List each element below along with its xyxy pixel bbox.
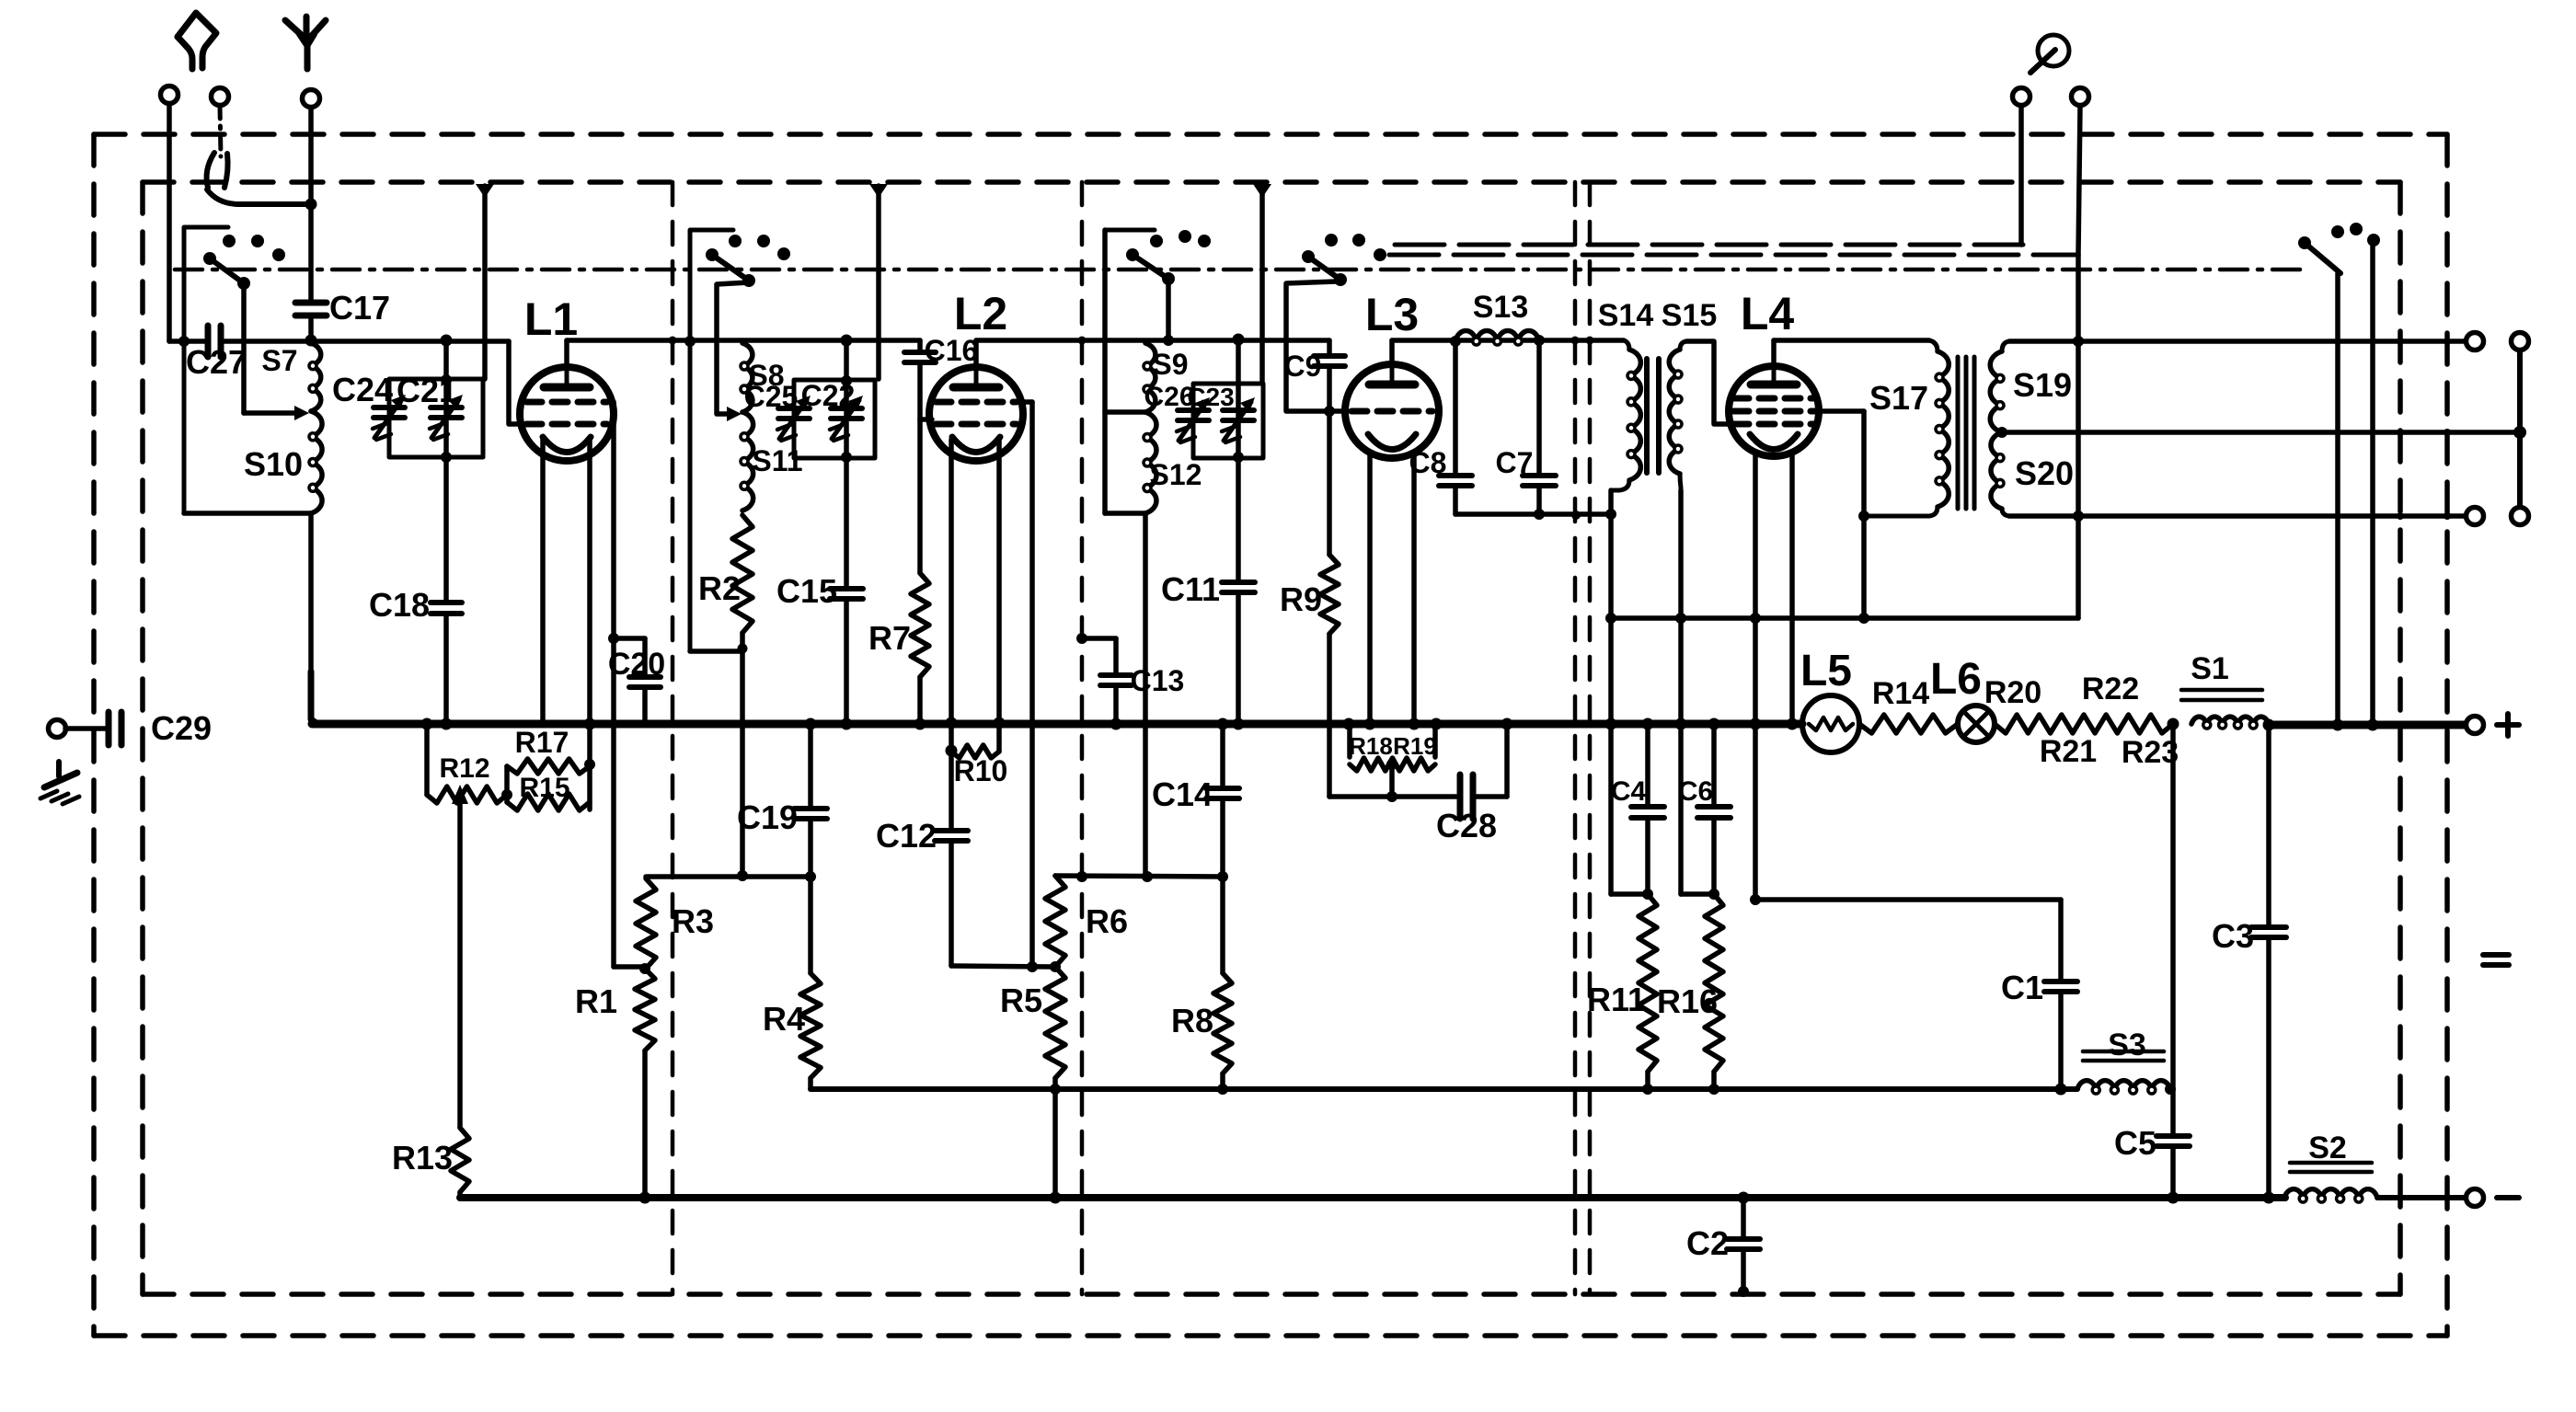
coil S19 (secondary upper) — [1990, 341, 2009, 432]
label R16 — [1657, 982, 1718, 1020]
svg-text:C3: C3 — [2212, 917, 2254, 955]
node S13 right — [1534, 335, 1545, 346]
node R10 left — [946, 745, 958, 757]
band switch stage1 wiper arm — [210, 258, 250, 290]
terminal frame-aerial B — [212, 88, 229, 106]
linkage bus upper line (long dashes) — [1395, 243, 2023, 247]
band switch stage1 wiper lead — [241, 283, 247, 413]
lamp L6 — [1958, 706, 1995, 742]
label L4 — [1741, 288, 1795, 339]
wire C4 to R11 — [1645, 818, 1650, 894]
coil S15 (secondary) — [1669, 341, 1686, 490]
label C23 — [1187, 383, 1234, 411]
resistor R15 — [507, 794, 590, 810]
wire L3 grid entry — [1329, 408, 1345, 414]
svg-text:R23: R23 — [2122, 735, 2179, 770]
label C26 — [1144, 382, 1194, 412]
band switch stage1 bracket — [184, 227, 228, 513]
label C11 — [1161, 570, 1220, 608]
svg-text:C13: C13 — [1131, 664, 1185, 697]
node R11 bias rail — [1642, 1084, 1653, 1095]
wire S14 bottom lead — [1608, 490, 1614, 894]
resistor R16 — [1705, 894, 1723, 1072]
node grid rail / divider — [1076, 871, 1087, 882]
stage shield divider (double dashed, stage 3/4) right line — [1588, 182, 1593, 1294]
svg-text:R20: R20 — [1984, 675, 2041, 710]
wire output row centre — [2002, 430, 2516, 435]
svg-text:S14: S14 — [1598, 298, 1654, 333]
label C19 — [737, 798, 798, 836]
label C8 — [1409, 446, 1447, 479]
svg-text:L5: L5 — [1800, 647, 1852, 695]
node S17 return row672 — [1858, 613, 1869, 624]
switch antenna-select blade b — [224, 154, 228, 188]
wire trimmer2 to C15 — [844, 458, 849, 589]
coil S13 — [1455, 330, 1539, 345]
capacitor C5 — [2156, 1089, 2190, 1198]
capacitor C1 — [2044, 982, 2077, 992]
label R3 — [672, 902, 714, 940]
band switch stage1 contact 1 — [223, 235, 236, 247]
wire + bus (main) — [312, 720, 1802, 729]
node trimmer box top — [441, 374, 452, 385]
headphone jack icon — [2030, 35, 2069, 73]
band switch stage2 contact 2 — [757, 235, 770, 247]
label C4 — [1611, 776, 1647, 807]
node detector row / S14 drop — [1605, 509, 1616, 520]
wire L2 cathode lead — [949, 440, 954, 831]
node C28 bus — [1501, 718, 1513, 730]
tube L4 — [1729, 366, 1819, 456]
node L2 filament bus — [994, 717, 1006, 729]
label R11 — [1587, 981, 1646, 1018]
coil S12 (lower section) — [1144, 412, 1156, 513]
label C18 — [369, 586, 430, 624]
node R5 minus rail — [1050, 1192, 1062, 1204]
wire minus out — [2377, 1195, 2466, 1200]
power switch lead a — [2335, 273, 2340, 725]
capacitor C29 input terminal — [49, 720, 109, 738]
capacitor C2 — [1727, 1198, 1760, 1291]
wire R16 bottom — [1711, 1072, 1717, 1089]
node stage3 wiper / plate row — [1163, 335, 1174, 346]
svg-text:R4: R4 — [763, 1000, 805, 1038]
grid switch L3 contact 2 — [1352, 234, 1365, 247]
node S17 bottom junction — [1858, 511, 1869, 522]
svg-text:C24: C24 — [332, 371, 393, 408]
wire R13 to - rail — [457, 1192, 463, 1198]
wire L1 grid-1 exit — [604, 402, 614, 967]
svg-text:C15: C15 — [776, 572, 837, 610]
wire L4 plate top lead — [1771, 340, 1777, 366]
svg-text:S19: S19 — [2013, 366, 2072, 404]
svg-text:C6: C6 — [1678, 776, 1713, 807]
trimmer box stage2 — [794, 380, 875, 458]
coil S7/S10 tap wire — [244, 406, 309, 420]
label R5 — [1000, 982, 1042, 1019]
node stage2 bracket / plate row — [684, 336, 696, 347]
label S9 — [1152, 348, 1188, 381]
svg-text:C14: C14 — [1152, 775, 1213, 813]
wire R12 drop — [424, 724, 430, 795]
svg-text:R1: R1 — [575, 982, 617, 1020]
barretter L5 — [1802, 695, 1859, 752]
band switch stage2 wiper pivot — [706, 248, 719, 261]
capacitor C19 — [794, 809, 827, 819]
label C14 — [1152, 775, 1213, 813]
band switch stage2 wiper lead to coil tap — [717, 282, 749, 421]
wire C19 to R4 — [808, 819, 813, 973]
svg-text:R11: R11 — [1587, 981, 1646, 1018]
wire bias rail — [811, 1086, 2077, 1092]
linkage bus lower line (long dashes) — [1389, 253, 2078, 258]
capacitor C9 (coupling) — [1314, 340, 1345, 411]
capacitor C27 (series) — [208, 326, 221, 357]
choke S2 — [2284, 1189, 2377, 1202]
node L2 cathode bus — [946, 717, 958, 729]
node C13 bus — [1110, 718, 1122, 730]
shield tap triangle stage1 — [476, 184, 494, 198]
shield tap wire stage2 — [876, 186, 881, 379]
label R2 — [698, 569, 741, 607]
wire C1 feed row — [1755, 900, 2061, 982]
node S15 bus — [1675, 718, 1687, 730]
band switch stage3 tap vertical — [1105, 230, 1145, 513]
tube L2 — [929, 367, 1023, 461]
wire L2 grid-1 exit — [1013, 402, 1032, 967]
label L1 — [524, 293, 578, 345]
wire R2 to grid rail stage2 — [740, 633, 745, 876]
node trimmer3 row — [1233, 334, 1245, 346]
label S20 — [2015, 454, 2074, 492]
node L2 grid / C12 wire — [1027, 961, 1038, 972]
wire trimmer to C18 — [443, 457, 449, 603]
svg-text:L1: L1 — [524, 293, 578, 345]
switch antenna-select wiper to antenna line — [207, 189, 311, 204]
label R4 — [763, 1000, 805, 1038]
grid switch L3 contact 1 — [1325, 234, 1338, 247]
label R22 — [2082, 672, 2139, 706]
grid switch L3 wiper arm — [1308, 257, 1347, 286]
capacitor C14 — [1206, 724, 1239, 877]
capacitor C6 — [1697, 724, 1731, 818]
svg-text:C29: C29 — [151, 709, 212, 747]
label R20 — [1984, 675, 2041, 710]
svg-text:R8: R8 — [1171, 1002, 1213, 1039]
label S17 — [1869, 379, 1928, 417]
label R15 — [519, 773, 569, 803]
wire coil S10 bottom loop — [184, 511, 311, 516]
node plate row divider tick stage2 — [1078, 337, 1087, 345]
node R1 minus rail — [639, 1192, 651, 1204]
label S15 — [1662, 298, 1718, 333]
wire L2 plate row (to stage 3) — [976, 338, 1329, 343]
wire L2 filament lead — [996, 440, 1002, 723]
svg-text:R22: R22 — [2082, 672, 2139, 706]
node C7 bottom — [1534, 509, 1545, 520]
wire grid rail stage1 — [646, 874, 811, 879]
svg-text:C1: C1 — [2001, 969, 2043, 1006]
power switch contact 1 — [2298, 236, 2311, 249]
label C9 — [1284, 350, 1322, 383]
node S14 bus — [1605, 718, 1617, 730]
wire trimmer3 to C11 — [1236, 458, 1241, 582]
trimmer box stage3 — [1193, 384, 1263, 458]
wire L3 cathode lead — [1367, 454, 1373, 723]
node C19 bus — [805, 718, 817, 730]
svg-text:L2: L2 — [954, 288, 1007, 339]
node C3 minus rail — [2263, 1192, 2275, 1204]
svg-text:R5: R5 — [1000, 982, 1042, 1019]
ground symbol — [40, 762, 79, 804]
wire L1 filament lead — [587, 438, 592, 809]
node R12 top — [421, 718, 433, 730]
shield tap triangle stage2 — [869, 184, 888, 198]
node R16 top — [1708, 889, 1719, 900]
svg-text:C2: C2 — [1686, 1224, 1729, 1262]
node C1 bias rail — [2055, 1084, 2067, 1096]
wire bias row 672 — [1611, 615, 2078, 621]
label R10 — [954, 754, 1008, 787]
wire output row top — [2009, 339, 2466, 344]
label R17 — [515, 726, 569, 759]
label S14 — [1598, 298, 1654, 333]
node plate row divider tick stage1 — [669, 337, 677, 345]
svg-text:C9: C9 — [1284, 350, 1322, 383]
node R12/R15 junction — [501, 789, 512, 800]
wire L3 grid to switch — [1286, 281, 1336, 411]
grid switch L3 contact 3 — [1374, 248, 1386, 261]
svg-text:R17: R17 — [515, 726, 569, 759]
variable capacitor C23 — [1222, 397, 1255, 442]
resistor R9 — [1320, 411, 1339, 797]
capacitor C8 — [1439, 341, 1472, 514]
label C1 — [2001, 969, 2043, 1006]
capacitor C7 — [1523, 340, 1556, 514]
band switch stage3 bracket — [1105, 228, 1155, 233]
label S19 — [2013, 366, 2072, 404]
wire C12 to R5/R6 junction — [951, 841, 1055, 967]
tube L1 — [520, 367, 614, 461]
trimmer box stage1 — [389, 379, 483, 457]
label S3 — [2108, 1027, 2146, 1062]
label C6 — [1678, 776, 1713, 807]
svg-text:R10: R10 — [954, 754, 1008, 787]
svg-text:L6: L6 — [1930, 655, 1982, 704]
node grid row stage1 — [441, 335, 453, 347]
stage shield divider (double dashed, stage 3/4) left line — [1573, 182, 1578, 1294]
coil S11 (lower section) — [741, 412, 753, 511]
svg-text:C7: C7 — [1496, 446, 1534, 479]
variable capacitor C26 — [1177, 397, 1210, 442]
label R21 — [2040, 734, 2097, 769]
terminal phone left — [2013, 88, 2030, 246]
coil S20 (secondary lower) — [1991, 432, 2009, 516]
wire trimmer3 drop — [1236, 339, 1241, 384]
variable capacitor C25 — [777, 396, 811, 441]
tube L3 — [1345, 364, 1439, 458]
svg-text:C11: C11 — [1161, 570, 1220, 608]
svg-text:S2: S2 — [2308, 1131, 2347, 1165]
label S13 — [1473, 290, 1529, 325]
capacitor C20 — [629, 677, 661, 687]
label C15 — [776, 572, 837, 610]
node grid rail / S12 drop — [1142, 871, 1153, 882]
wire S14 lead to R11 — [1611, 891, 1648, 897]
wire grid rail stage2 — [1055, 876, 1223, 877]
resistor R11 — [1639, 894, 1657, 1072]
capacitor C18 — [431, 603, 462, 614]
resistor R17 — [507, 759, 590, 774]
svg-text:C17: C17 — [329, 289, 390, 327]
node R5 bias rail — [1050, 1084, 1061, 1095]
svg-text:L3: L3 — [1365, 289, 1419, 340]
label R9 — [1280, 580, 1322, 618]
label S2 — [2308, 1131, 2347, 1165]
terminal frame-aerial A — [161, 86, 178, 342]
svg-text:S3: S3 — [2108, 1027, 2146, 1062]
wire minus rail — [460, 1194, 2285, 1201]
wire S15 bottom lead — [1678, 490, 1684, 894]
label L6 — [1930, 655, 1982, 704]
shield tap wire stage3 — [1259, 186, 1265, 384]
node R16 bias rail — [1708, 1084, 1719, 1095]
node S1 right — [2263, 719, 2275, 731]
resistor R14 — [1859, 715, 1958, 733]
node trimmer3 bottom — [1233, 452, 1244, 463]
svg-text:C4: C4 — [1611, 776, 1647, 807]
wire coil S10 bottom to + bus — [308, 513, 314, 725]
output link bar — [2512, 333, 2529, 525]
label DC symbol — [2483, 955, 2509, 965]
svg-text:S1: S1 — [2191, 651, 2229, 686]
node C2 minus rail — [1738, 1192, 1750, 1204]
wire S17 return vertical — [1861, 411, 1867, 618]
terminal output top — [2467, 333, 2484, 350]
node L4 cathode row672 — [1750, 613, 1761, 624]
resistor R4 — [800, 973, 821, 1078]
svg-text:S13: S13 — [1473, 290, 1529, 325]
variable capacitor C24 — [373, 395, 406, 440]
label C21 — [397, 372, 457, 409]
svg-text:C28: C28 — [1436, 807, 1497, 844]
terminal plus — [2467, 717, 2484, 734]
resistor R7 — [911, 419, 929, 723]
node R8 bias rail — [1217, 1084, 1228, 1095]
node trimmer2 top — [841, 375, 852, 386]
band switch stage2 contact 1 — [729, 235, 742, 247]
node C14 grid rail — [1217, 871, 1228, 882]
wire R1 to - rail — [642, 1050, 648, 1198]
switch antenna-select blade a — [207, 153, 214, 188]
label R18 — [1349, 732, 1393, 760]
shield box outer (dashed) — [94, 134, 2447, 1336]
svg-text:S9: S9 — [1152, 348, 1188, 381]
node C15 bus — [841, 718, 853, 730]
node trimmer box bottom — [441, 452, 452, 463]
label plus — [2497, 714, 2519, 736]
variable capacitor C21 — [430, 395, 463, 440]
label R7 — [868, 619, 911, 657]
node C18 bus — [441, 718, 453, 730]
wire R11 bottom — [1645, 1072, 1650, 1089]
shield tap wire stage1 — [482, 186, 488, 379]
crossing ticks output rows — [2397, 338, 2451, 520]
node C2 shield — [1738, 1286, 1749, 1297]
svg-text:C12: C12 — [876, 817, 937, 855]
node S15 row672 — [1675, 613, 1686, 624]
node switch lead b bus — [2367, 719, 2379, 731]
label C27 — [186, 343, 247, 381]
node S19/S20 centre tap — [1996, 427, 2007, 438]
band switch stage1 wiper pivot — [203, 252, 216, 265]
wire + bus left corner — [311, 672, 317, 724]
node C6 bus — [1708, 718, 1720, 730]
coil S17 (primary) — [1864, 340, 1949, 516]
label S12 — [1150, 458, 1202, 491]
svg-text:R7: R7 — [868, 619, 911, 657]
power switch lead b — [2370, 240, 2375, 725]
svg-text:C25: C25 — [744, 380, 799, 413]
svg-text:S12: S12 — [1150, 458, 1202, 491]
label C7 — [1496, 446, 1534, 479]
node L3 filament bus — [1409, 718, 1420, 730]
capacitor C29 — [109, 712, 121, 745]
band switch stage3 wiper arm — [1133, 255, 1175, 285]
svg-text:R18: R18 — [1349, 732, 1393, 760]
potentiometer wiper arrow R12 — [452, 785, 468, 1128]
svg-text:R2: R2 — [698, 569, 741, 607]
capacitor C4 — [1631, 724, 1664, 818]
svg-text:S10: S10 — [244, 445, 303, 483]
node C13 tap on divider — [1076, 633, 1087, 644]
node S14 row672 — [1605, 613, 1616, 624]
transformer S14/S15 core — [1647, 359, 1659, 473]
terminal phone right — [2072, 88, 2089, 619]
wire L4 cathode lead — [1753, 452, 1758, 900]
svg-text:R19: R19 — [1393, 732, 1437, 760]
wire R5 to rails — [1052, 1078, 1058, 1198]
svg-text:R9: R9 — [1280, 580, 1322, 618]
wire C20 to + bus — [642, 687, 648, 724]
choke S3 — [2077, 1081, 2170, 1094]
wire C8/C7 bottom row — [1455, 511, 1611, 517]
band switch stage2 contact 3 — [777, 247, 790, 260]
wire C6 to R16 — [1711, 818, 1717, 894]
label C2 — [1686, 1224, 1729, 1262]
node C11 bus — [1233, 718, 1245, 730]
choke S1 — [2191, 717, 2269, 729]
wire L4 grid-2 exit — [1811, 408, 1864, 414]
label C24 — [332, 371, 393, 408]
resistor R6 — [1045, 876, 1065, 967]
wire L1 plate row (to stage 2) — [567, 338, 920, 343]
label C22 — [801, 379, 856, 412]
label S10 — [244, 445, 303, 483]
ganged switch linkage line (dash-dot) — [175, 268, 2300, 272]
label L2 — [954, 288, 1007, 339]
svg-text:S15: S15 — [1662, 298, 1718, 333]
band switch stage3 contact 1 — [1150, 235, 1163, 247]
choke S2 core bars — [2290, 1163, 2372, 1172]
node phone line row3 — [2073, 511, 2084, 522]
node plate row divider ticks — [1571, 337, 1594, 345]
capacitor C15 — [830, 589, 863, 599]
band switch stage3 wiper pivot — [1126, 248, 1139, 261]
wire C13 to bus — [1113, 685, 1119, 723]
label R14 — [1872, 676, 1929, 711]
label R6 — [1086, 902, 1128, 940]
